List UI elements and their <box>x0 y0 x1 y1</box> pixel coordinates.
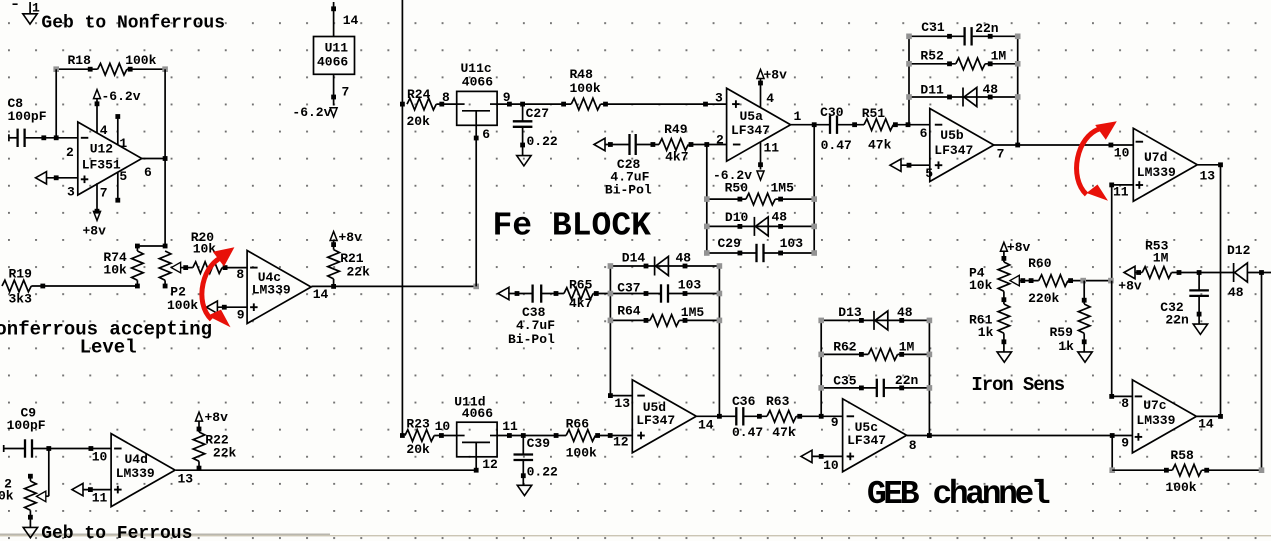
svg-text:8: 8 <box>1121 396 1129 411</box>
svg-text:Iron Sens: Iron Sens <box>971 374 1064 396</box>
svg-text:LM339: LM339 <box>116 466 155 481</box>
capacitor C37 103 <box>608 277 723 302</box>
capacitor C8 100pF <box>8 96 78 147</box>
svg-text:20k: 20k <box>407 114 431 129</box>
svg-text:R23: R23 <box>406 417 430 432</box>
wire U4d pin11 input with arrow <box>72 483 111 495</box>
svg-text:14: 14 <box>313 287 329 302</box>
op-amp U5a LF347 <box>715 88 802 161</box>
svg-text:22n: 22n <box>975 21 999 36</box>
wire U7c pin9 node down to R58 <box>1111 436 1113 471</box>
svg-text:0.47: 0.47 <box>821 138 852 153</box>
svg-text:C31: C31 <box>921 20 945 35</box>
red swap arrow 1 <box>202 247 235 327</box>
analog switch U11c 4066 <box>457 61 511 142</box>
svg-text:8: 8 <box>909 438 917 453</box>
svg-text:U5a: U5a <box>740 109 764 124</box>
svg-text:103: 103 <box>780 236 804 251</box>
svg-text:103: 103 <box>678 277 702 292</box>
feedback box right vertical (U5a output node) <box>813 125 815 253</box>
svg-text:100k: 100k <box>566 445 597 460</box>
svg-text:Bi-Pol: Bi-Pol <box>605 182 652 197</box>
svg-text:0k: 0k <box>0 489 14 504</box>
power -6.2v at U5a pin11 <box>713 142 764 183</box>
feedback box right vertical (U5b output node) <box>1015 36 1020 147</box>
svg-text:14: 14 <box>343 13 359 28</box>
svg-text:4: 4 <box>766 91 774 106</box>
svg-text:U7c: U7c <box>1143 398 1167 413</box>
capacitor C28 4.7uF Bi-Pol with input arrow <box>594 134 659 197</box>
svg-text:100k: 100k <box>167 298 198 313</box>
svg-text:Fe BLOCK: Fe BLOCK <box>493 208 652 245</box>
svg-text:4066: 4066 <box>462 75 493 90</box>
svg-text:1M5: 1M5 <box>681 305 705 320</box>
wire U5d pin13 stub <box>610 395 632 397</box>
resistor R62 1M <box>818 340 932 361</box>
svg-text:+8v: +8v <box>1118 278 1142 293</box>
resistor R22 22k with +8v <box>193 410 236 471</box>
diode D13 48 <box>818 305 932 330</box>
svg-text:+8v: +8v <box>1007 240 1031 255</box>
svg-text:R24: R24 <box>407 87 431 102</box>
wire U5b pin5 input with arrow <box>890 159 930 171</box>
svg-text:10: 10 <box>92 450 108 465</box>
feedback box left vertical (U5b pin6 node) <box>908 36 910 124</box>
svg-text:9: 9 <box>237 307 245 322</box>
resistor R64 1M5 <box>608 304 723 327</box>
resistor R48 100k <box>570 67 727 110</box>
capacitor C38 4.7uF Bi-Pol with input arrow <box>498 285 564 348</box>
resistor R51 47k <box>862 106 930 152</box>
svg-text:48: 48 <box>676 251 692 266</box>
svg-text:R49: R49 <box>664 122 688 137</box>
svg-text:1M5: 1M5 <box>771 181 795 196</box>
svg-text:10k: 10k <box>193 241 217 256</box>
capacitor C36 0.47 <box>732 394 767 440</box>
svg-text:9: 9 <box>831 415 839 430</box>
svg-text:R48: R48 <box>570 67 594 82</box>
svg-text:R18: R18 <box>68 53 92 68</box>
svg-text:11: 11 <box>502 419 518 434</box>
svg-text:C37: C37 <box>617 280 640 295</box>
wire U5c pin10 input with arrow <box>801 450 843 462</box>
svg-text:11: 11 <box>1113 184 1129 199</box>
svg-text:10: 10 <box>823 458 839 473</box>
svg-text:D12: D12 <box>1227 243 1251 258</box>
svg-text:4066: 4066 <box>317 55 348 70</box>
svg-text:1k: 1k <box>978 325 994 340</box>
wire U5b output to U7d pin10 <box>994 143 1134 148</box>
svg-text:GEB channel: GEB channel <box>867 476 1050 513</box>
svg-text:C35: C35 <box>833 374 857 389</box>
svg-text:+8v: +8v <box>83 224 107 239</box>
wire U7c output <box>1197 414 1223 419</box>
resistor R65 4k7 <box>564 277 611 311</box>
feedback box left vertical (U5a pin2 node) <box>706 145 708 254</box>
wire U5c output to U7c pin9 <box>907 433 1133 438</box>
svg-text:D10: D10 <box>725 210 749 225</box>
svg-text:11: 11 <box>92 491 108 506</box>
svg-text:47k: 47k <box>868 137 892 152</box>
svg-text:3: 3 <box>67 185 75 200</box>
resistor R50 1M5 <box>704 181 817 205</box>
svg-text:1: 1 <box>119 136 127 151</box>
wire right edge vertical D12 to R58 <box>1261 273 1263 471</box>
svg-text:7: 7 <box>100 186 108 201</box>
wire U7d pin11 stub <box>1109 183 1133 188</box>
svg-text:D13: D13 <box>838 305 862 320</box>
svg-text:9: 9 <box>1121 436 1129 451</box>
svg-text:3: 3 <box>715 91 723 106</box>
op-amp U5c LF347 <box>823 399 917 473</box>
svg-text:22k: 22k <box>213 445 237 460</box>
svg-text:-6.2v: -6.2v <box>292 105 331 120</box>
svg-text:LM339: LM339 <box>252 283 291 298</box>
svg-text:220k: 220k <box>1028 291 1059 306</box>
svg-text:R62: R62 <box>833 340 857 355</box>
resistor R58 100k <box>1109 448 1264 495</box>
svg-text:2: 2 <box>66 145 74 160</box>
capacitor C31 22n <box>906 20 1020 45</box>
capacitor C27 0.22 to ground <box>513 104 558 166</box>
wire U11 pin7 to -6.2v <box>292 74 349 120</box>
svg-text:+8v: +8v <box>764 67 788 82</box>
svg-text:C29: C29 <box>718 236 742 251</box>
resistor R63 47k <box>766 394 843 440</box>
potentiometer P4 10k <box>969 260 1039 300</box>
comparator U4c LM339 <box>236 251 328 324</box>
svg-text:6: 6 <box>144 165 152 180</box>
wire U4d output long to U11d pin12 <box>176 469 476 471</box>
svg-text:14: 14 <box>698 418 714 433</box>
svg-text:8: 8 <box>236 267 244 282</box>
window border line bottom <box>0 535 1271 536</box>
feedback box right vertical (U5c output node) <box>928 320 930 435</box>
resistor R74 10k <box>103 246 143 288</box>
op-amp U12 LF351 <box>66 122 152 201</box>
wire U7d output vertical down to U7c output <box>1220 165 1222 417</box>
svg-text:LF351: LF351 <box>82 158 121 173</box>
resistor R61 1k to ground <box>969 297 1012 362</box>
pin 5 stub U12 <box>115 172 120 203</box>
wire U5a output <box>791 122 830 127</box>
power +8v at P4 <box>1000 240 1030 261</box>
wire U12 output <box>142 156 168 161</box>
comparator U7c LM339 <box>1121 380 1214 453</box>
svg-text:0.47: 0.47 <box>732 425 763 440</box>
resistor R59 1k to ground <box>1050 281 1093 363</box>
wire Iron Sens node down to U7c pin8 <box>1109 281 1132 399</box>
svg-text:U5b: U5b <box>940 128 964 143</box>
wire U5d output <box>697 415 737 417</box>
svg-text:D11: D11 <box>920 83 944 98</box>
capacitor C39 0.22 to ground <box>514 436 559 496</box>
svg-text:5: 5 <box>119 169 127 184</box>
svg-text:6: 6 <box>482 127 490 142</box>
diode D12 48 <box>1227 243 1271 300</box>
resistor R53 1M with +8v arrow <box>1118 239 1233 294</box>
svg-text:LF347: LF347 <box>636 413 675 428</box>
svg-text:48: 48 <box>1228 285 1244 300</box>
svg-text:100k: 100k <box>1165 480 1196 495</box>
svg-text:6: 6 <box>920 126 928 141</box>
capacitor C32 22n to ground <box>1160 270 1209 334</box>
svg-text:1M: 1M <box>991 49 1007 64</box>
wire U11d pin12 control <box>474 457 479 473</box>
svg-text:13: 13 <box>614 396 630 411</box>
pin 1 stub U12 <box>115 114 120 145</box>
diode D11 48 <box>906 82 1020 107</box>
svg-text:C39: C39 <box>527 436 551 451</box>
resistor R19 3k3 <box>2 267 137 307</box>
IC U11 4066 box <box>314 37 355 75</box>
ground GND1 (Geb to Nonferrous) <box>13 1 41 25</box>
svg-text:C36: C36 <box>732 394 756 409</box>
op-amp U5d LF347 <box>613 380 714 453</box>
wire U7d output <box>1198 162 1223 167</box>
svg-text:7: 7 <box>997 147 1005 162</box>
svg-text:1: 1 <box>794 109 802 124</box>
wire U4c pin9 input with arrow <box>206 301 247 313</box>
svg-text:C30: C30 <box>820 105 844 120</box>
svg-text:R52: R52 <box>920 48 944 63</box>
svg-text:20k: 20k <box>406 442 430 457</box>
resistor R60 220k <box>1028 256 1114 306</box>
svg-text:Level: Level <box>80 337 137 359</box>
analog switch U11d 4066 <box>435 395 518 473</box>
svg-text:5: 5 <box>925 166 933 181</box>
svg-text:48: 48 <box>772 210 788 225</box>
svg-text:LM339: LM339 <box>1137 165 1176 180</box>
svg-text:4k7: 4k7 <box>569 296 592 311</box>
resistor R66 100k <box>566 417 633 461</box>
svg-text:10: 10 <box>435 419 451 434</box>
resistor R23 20k <box>405 417 457 457</box>
svg-text:1k: 1k <box>1058 339 1074 354</box>
wire U11 pin14 <box>331 2 358 37</box>
svg-text:22n: 22n <box>895 373 919 388</box>
svg-text:R64: R64 <box>617 304 641 319</box>
svg-text:-6.2v: -6.2v <box>102 89 141 104</box>
wire U7d pin11 vertical to Iron Sens node <box>1111 185 1113 281</box>
svg-text:D14: D14 <box>622 251 646 266</box>
svg-text:R51: R51 <box>862 106 886 121</box>
svg-text:R58: R58 <box>1170 448 1194 463</box>
op-amp U5b LF347 <box>920 109 1005 182</box>
svg-text:U7d: U7d <box>1144 150 1167 165</box>
svg-text:2: 2 <box>716 133 724 148</box>
diode D10 48 <box>704 210 817 236</box>
svg-text:C27: C27 <box>526 106 549 121</box>
comparator U7d LM339 <box>1113 128 1215 201</box>
diode D14 48 <box>608 251 723 276</box>
svg-text:1M: 1M <box>1153 251 1169 266</box>
svg-text:13: 13 <box>1200 169 1216 184</box>
svg-text:48: 48 <box>897 305 913 320</box>
capacitor C9 100pF <box>4 405 111 457</box>
svg-text:4066: 4066 <box>462 406 493 421</box>
svg-text:U12: U12 <box>90 142 114 157</box>
svg-text:10: 10 <box>1114 145 1130 160</box>
potentiometer P? 10k (left edge) <box>0 449 49 538</box>
long vertical wire from top to R23 <box>400 0 405 438</box>
power +8v at U12 pin7 <box>83 183 107 238</box>
svg-text:22n: 22n <box>1165 313 1189 328</box>
capacitor C35 22n <box>818 373 932 397</box>
svg-text:0.22: 0.22 <box>527 465 558 480</box>
svg-text:48: 48 <box>983 82 999 97</box>
resistor R20 10k <box>191 230 247 273</box>
wire R18 right vertical (feedback/output node) <box>164 69 166 246</box>
svg-text:Geb to Nonferrous: Geb to Nonferrous <box>41 14 225 34</box>
wire U11d pin11 output <box>497 433 566 438</box>
svg-text:0.22: 0.22 <box>527 134 558 149</box>
svg-text:7: 7 <box>342 85 350 100</box>
svg-text:100k: 100k <box>125 53 156 68</box>
capacitor C30 0.47 <box>820 105 864 153</box>
svg-text:100k: 100k <box>570 81 601 96</box>
svg-text:Geb to Ferrous: Geb to Ferrous <box>41 524 192 541</box>
svg-text:R63: R63 <box>766 394 790 409</box>
resistor R21 22k with +8v <box>328 230 370 286</box>
feedback box left vertical (U5c pin9 node) <box>820 320 822 416</box>
svg-text:+8v: +8v <box>205 410 229 425</box>
svg-text:13: 13 <box>178 472 194 487</box>
resistor R49 4k7 <box>659 122 727 165</box>
wire U11c pin9 output <box>497 102 571 107</box>
svg-text:100pF: 100pF <box>7 418 46 433</box>
svg-text:4k7: 4k7 <box>665 150 688 165</box>
feedback box right vertical (U5d output node) <box>717 266 722 419</box>
svg-text:LF347: LF347 <box>731 123 770 138</box>
wire R18 left vertical to pin2 <box>55 69 57 138</box>
svg-text:11: 11 <box>764 141 780 156</box>
svg-text:3k3: 3k3 <box>9 292 33 307</box>
svg-text:22k: 22k <box>347 265 371 280</box>
svg-text:U4d: U4d <box>125 452 148 467</box>
svg-text:47k: 47k <box>772 425 796 440</box>
resistor R24 20k <box>407 87 457 129</box>
capacitor C29 103 <box>704 236 817 262</box>
svg-text:12: 12 <box>482 457 498 472</box>
svg-text:100pF: 100pF <box>8 109 47 124</box>
wire node row R74/P2 top <box>135 244 168 249</box>
potentiometer P2 100k <box>159 251 198 313</box>
power -6.2v at U12 pin4 <box>94 89 141 133</box>
wire U4c output to U11c pin6 <box>311 284 479 290</box>
resistor R18 100k <box>53 53 168 75</box>
svg-text:Bi-Pol: Bi-Pol <box>508 332 555 347</box>
svg-text:R66: R66 <box>566 417 590 432</box>
svg-text:R60: R60 <box>1028 256 1052 271</box>
svg-text:R50: R50 <box>725 181 749 196</box>
svg-text:LF347: LF347 <box>934 143 973 158</box>
svg-text:4.7uF: 4.7uF <box>516 318 555 333</box>
svg-text:10k: 10k <box>969 278 993 293</box>
svg-text:4: 4 <box>100 123 108 138</box>
svg-text:8: 8 <box>442 90 450 105</box>
svg-text:U11: U11 <box>325 41 349 56</box>
svg-text:+8v: +8v <box>339 230 363 245</box>
svg-text:LM339: LM339 <box>1136 413 1175 428</box>
resistor R52 1M <box>906 48 1020 69</box>
svg-text:R65: R65 <box>569 277 593 292</box>
svg-text:12: 12 <box>613 434 629 449</box>
svg-text:1M: 1M <box>899 340 915 355</box>
svg-text:LF347: LF347 <box>847 433 886 448</box>
svg-text:R19: R19 <box>9 267 33 282</box>
wire U12 pin3 input with arrow <box>36 172 78 184</box>
red swap arrow 2 <box>1077 121 1117 200</box>
power +8v at U5a pin4 <box>757 67 787 107</box>
svg-text:14: 14 <box>1198 417 1214 432</box>
comparator U4d LM339 <box>92 434 194 507</box>
wire U11c pin6 control down to U4c output <box>474 125 479 286</box>
feedback box left vertical (U5d pin13 node) <box>608 266 613 398</box>
svg-text:10k: 10k <box>103 263 127 278</box>
